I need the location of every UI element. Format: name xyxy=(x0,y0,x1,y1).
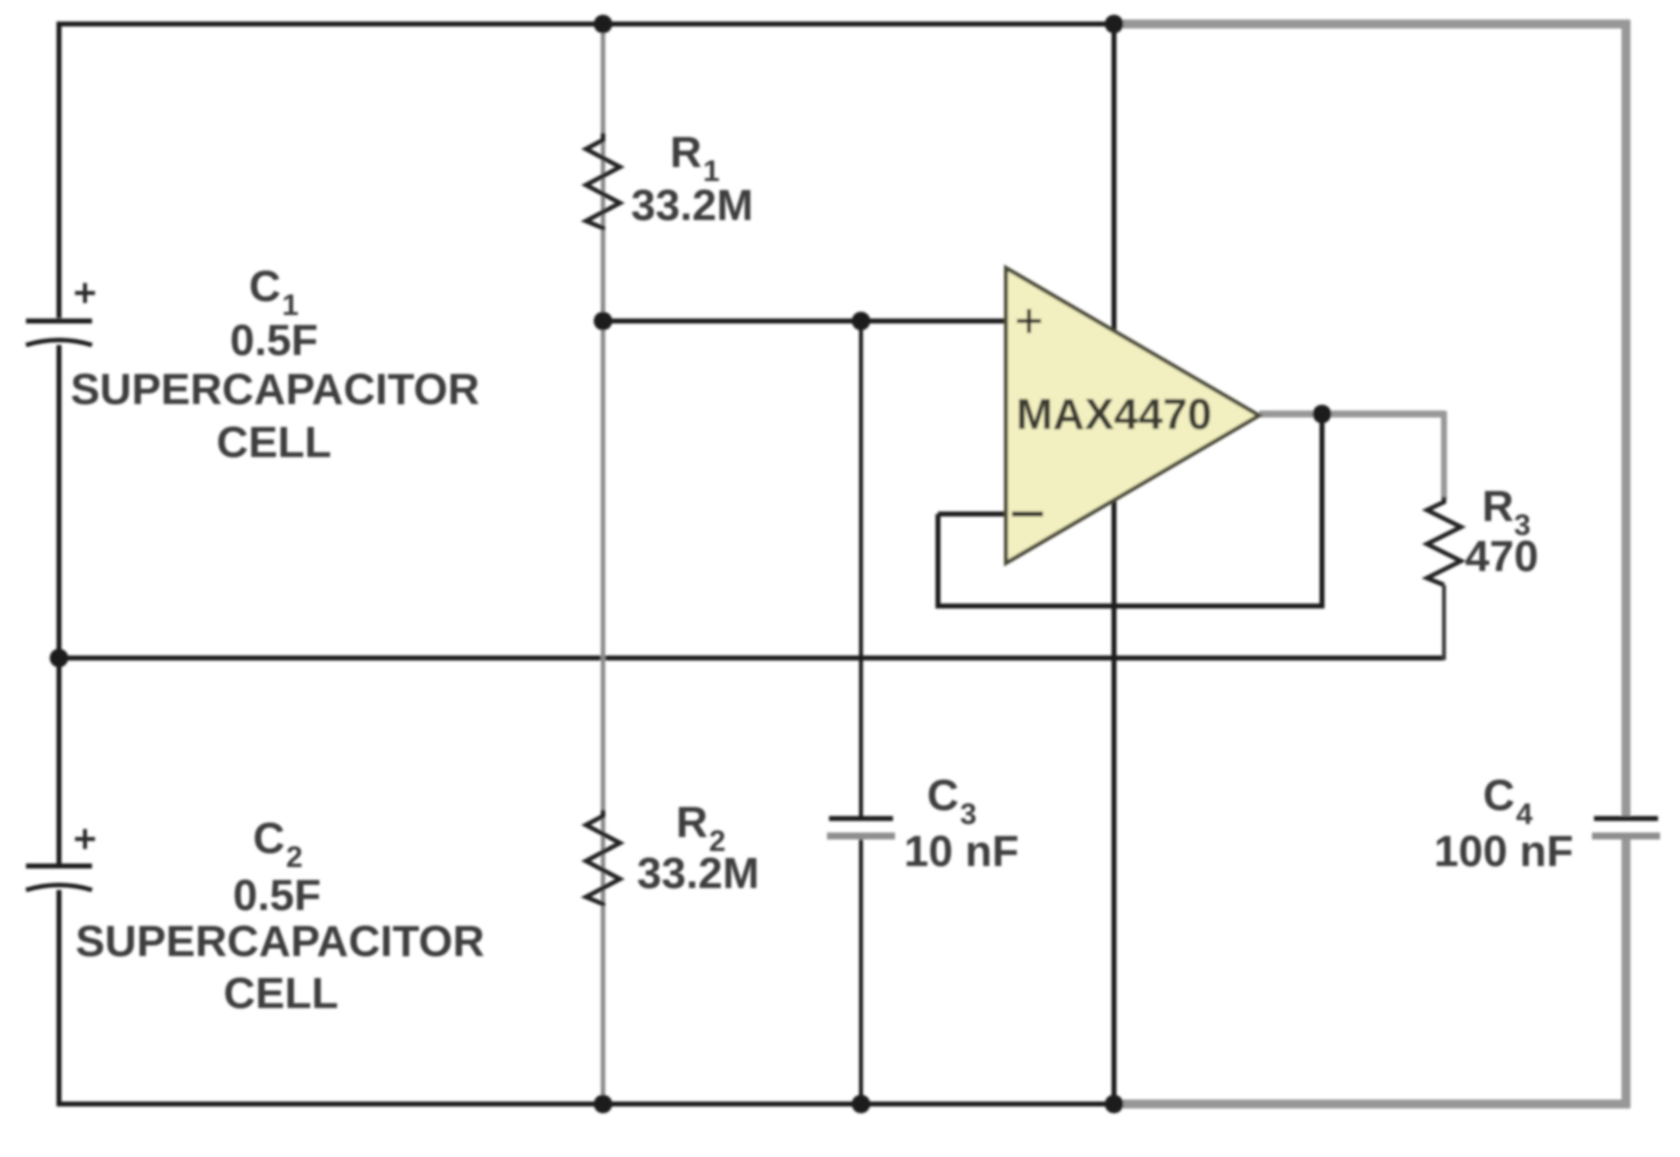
wire R3 lower lead xyxy=(1442,585,1446,660)
svg-text:33.2M: 33.2M xyxy=(637,849,759,898)
junction bottom rail / supply rail xyxy=(1105,1095,1124,1114)
svg-text:R: R xyxy=(670,128,702,177)
svg-text:100 nF: 100 nF xyxy=(1434,827,1573,876)
svg-text:R: R xyxy=(1482,482,1514,531)
svg-text:470: 470 xyxy=(1465,532,1538,581)
svg-text:MAX4470: MAX4470 xyxy=(1016,390,1212,439)
svg-text:C: C xyxy=(249,262,281,311)
wire C3 rail lower xyxy=(859,838,863,1104)
capacitor C1 polarity plus xyxy=(75,283,95,303)
wire middle rail xyxy=(59,656,1444,661)
junction top rail / supply rail xyxy=(1105,15,1124,34)
wire divider rail gray (R1/R2 column) xyxy=(601,24,606,1104)
wire C3 rail upper xyxy=(859,321,863,816)
svg-text:SUPERCAPACITOR: SUPERCAPACITOR xyxy=(75,917,484,966)
junction bottom rail / R2 xyxy=(594,1095,613,1114)
wire feedback loop xyxy=(938,414,1322,606)
junction left rail / middle rail xyxy=(50,649,69,668)
resistor R3 xyxy=(1427,497,1461,585)
capacitor C4 plates xyxy=(1594,816,1658,821)
wire noninverting input xyxy=(603,319,1008,324)
op-amp minus input symbol xyxy=(1012,512,1043,517)
wire output gray elbow down to R3 xyxy=(1441,411,1447,500)
wire left rail upper segment xyxy=(57,22,62,319)
svg-text:R: R xyxy=(676,798,708,847)
svg-text:C: C xyxy=(1483,771,1515,820)
wire bottom rail gray xyxy=(1114,1100,1630,1109)
op-amp plus input symbol xyxy=(1017,309,1041,333)
wire top rail gray xyxy=(1114,20,1630,29)
junction top rail / R1 xyxy=(594,15,613,34)
svg-text:33.2M: 33.2M xyxy=(631,181,753,230)
capacitor C1 plates xyxy=(26,319,92,324)
svg-text:CELL: CELL xyxy=(224,969,339,1018)
junction output / feedback xyxy=(1313,405,1332,424)
svg-text:0.5F: 0.5F xyxy=(233,871,321,920)
wire right rail gray lower xyxy=(1622,839,1631,1108)
junction noninverting wire / C3 rail xyxy=(852,312,871,331)
wire left rail middle segment xyxy=(57,345,62,864)
capacitor C3 plates xyxy=(829,816,893,821)
junction R1 bottom / noninverting wire xyxy=(594,312,613,331)
capacitor C2 polarity plus xyxy=(75,829,95,849)
svg-text:C: C xyxy=(927,771,959,820)
op-amp U1 MAX4470 xyxy=(1006,268,1259,563)
resistor R1 xyxy=(586,133,620,230)
node V+ vertical rail xyxy=(1112,24,1117,1104)
wire bottom rail black xyxy=(57,1102,1115,1107)
svg-text:C: C xyxy=(253,814,285,863)
wire top rail black xyxy=(57,22,1115,27)
junction bottom rail / C3 xyxy=(852,1095,871,1114)
svg-text:10 nF: 10 nF xyxy=(904,827,1019,876)
svg-text:2: 2 xyxy=(286,841,303,874)
svg-text:CELL: CELL xyxy=(217,418,332,467)
resistor R2 xyxy=(586,810,620,906)
wire inverting input xyxy=(938,512,1008,517)
wire left rail lower segment xyxy=(57,890,62,1107)
svg-text:SUPERCAPACITOR: SUPERCAPACITOR xyxy=(70,365,479,414)
wire right rail gray upper xyxy=(1622,20,1631,816)
wire output gray horizontal xyxy=(1259,411,1445,418)
svg-text:0.5F: 0.5F xyxy=(230,316,318,365)
capacitor C2 plates xyxy=(26,864,92,869)
